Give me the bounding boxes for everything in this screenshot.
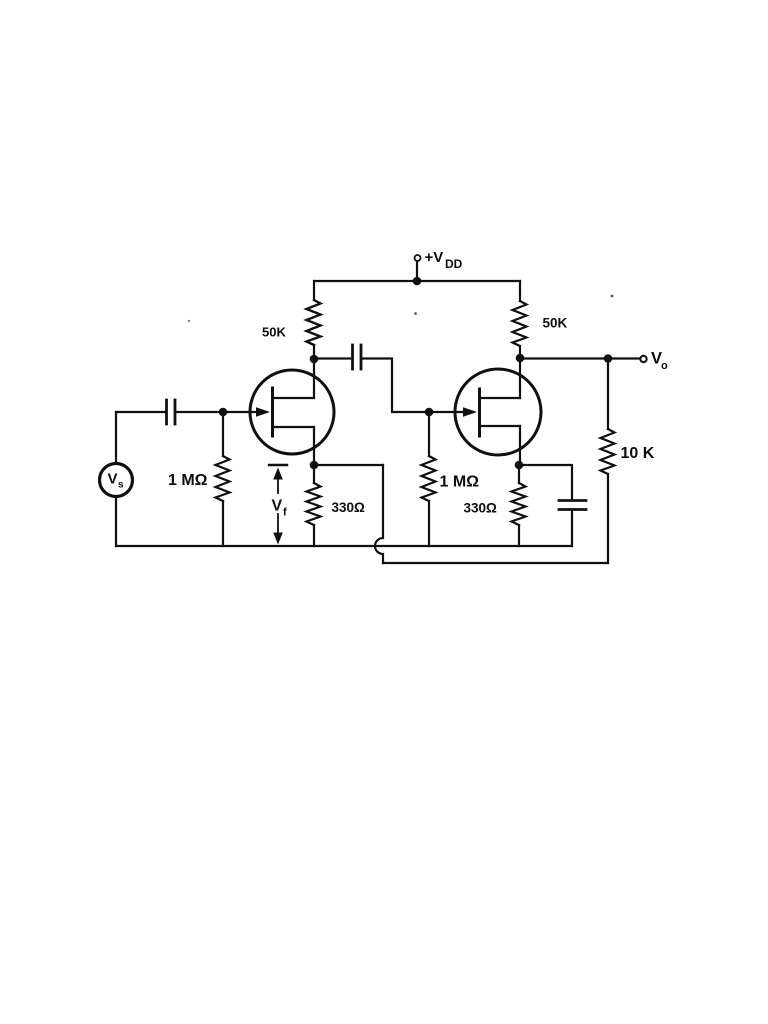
junction dot stage1 drain node xyxy=(310,355,319,364)
wire Vs to ground rail xyxy=(115,497,117,546)
wire output run xyxy=(520,357,640,359)
junction dot output node xyxy=(604,354,613,363)
svg-text:DD: DD xyxy=(445,257,463,271)
resistor R6 330 ohm (stage 2 source) xyxy=(512,465,526,546)
resistor R7 10K load xyxy=(601,359,615,564)
source Vs circle xyxy=(100,464,133,497)
svg-text:10 K: 10 K xyxy=(621,445,655,462)
junction dot stage1 source node xyxy=(310,461,319,470)
wire Vf arrow (double headed) xyxy=(273,468,283,545)
wire input cap to gate node xyxy=(175,411,258,413)
wire top supply rail xyxy=(314,280,520,282)
junction dot at VDD rail xyxy=(413,277,422,286)
terminal Vo open circle xyxy=(640,356,646,362)
svg-text:50K: 50K xyxy=(543,316,568,331)
transistor Q1 JFET stage 1 xyxy=(250,359,334,465)
svg-text:50K: 50K xyxy=(262,325,286,340)
svg-text:s: s xyxy=(118,480,124,491)
junction dot input gate node xyxy=(219,408,228,417)
transistor Q2 JFET stage 2 xyxy=(455,358,541,465)
resistor R4 330 ohm (stage 1 source) xyxy=(307,465,321,546)
svg-text:+V: +V xyxy=(425,249,444,266)
label +VDD xyxy=(425,249,463,271)
svg-text:f: f xyxy=(283,507,287,519)
svg-text:1 MΩ: 1 MΩ xyxy=(168,472,208,489)
label Vf xyxy=(272,498,288,519)
svg-text:330Ω: 330Ω xyxy=(464,501,498,516)
capacitor C2 interstage coupling xyxy=(353,345,362,369)
wire stage2 gate node to Q2 xyxy=(429,411,465,413)
svg-text:V: V xyxy=(272,498,283,515)
wire coupling cap to stage2 gate xyxy=(361,359,429,413)
capacitor C3 source bypass xyxy=(559,501,586,510)
gate arrowhead Q2 xyxy=(463,407,477,417)
junction dot stage2 source node xyxy=(515,461,524,470)
svg-text:330Ω: 330Ω xyxy=(332,500,366,515)
wire feedback bottom run to 10K xyxy=(383,562,608,564)
label Vs inside source xyxy=(108,471,125,491)
speck artifact middle xyxy=(414,312,417,315)
resistor R5 1M ohm (stage 2 gate) xyxy=(422,412,436,546)
node +VDD terminal stub xyxy=(416,262,418,281)
wire source branch down to Vs xyxy=(115,412,117,463)
svg-text:1 MΩ: 1 MΩ xyxy=(440,474,480,491)
node Vf measurement top bar xyxy=(269,464,287,466)
label Vo xyxy=(651,350,668,373)
speck artifact left xyxy=(188,320,191,323)
wire bypass cap to ground rail xyxy=(571,510,573,547)
capacitor C1 input coupling xyxy=(167,400,176,424)
gate arrowhead Q1 xyxy=(256,407,270,417)
wire input to Q1 gate xyxy=(116,411,166,413)
speck artifact right xyxy=(611,295,614,298)
resistor R3 1M ohm (stage 1 gate) xyxy=(216,412,230,546)
terminal +VDD open circle xyxy=(415,255,421,261)
resistor R1 50K (stage 1 drain) xyxy=(307,281,321,359)
resistor R2 50K (stage 2 drain) xyxy=(513,281,527,358)
svg-text:V: V xyxy=(108,471,118,488)
svg-text:o: o xyxy=(661,360,668,372)
junction dot stage2 gate node xyxy=(425,408,434,417)
wire stage1 source to feedback corner xyxy=(314,464,383,466)
junction dot stage2 drain node xyxy=(516,354,525,363)
ground rail bottom xyxy=(116,545,572,547)
wire drain node to coupling cap xyxy=(314,357,350,359)
wire stage2 source to bypass cap xyxy=(519,465,572,500)
wire feedback drop with hop over ground rail xyxy=(375,465,383,563)
